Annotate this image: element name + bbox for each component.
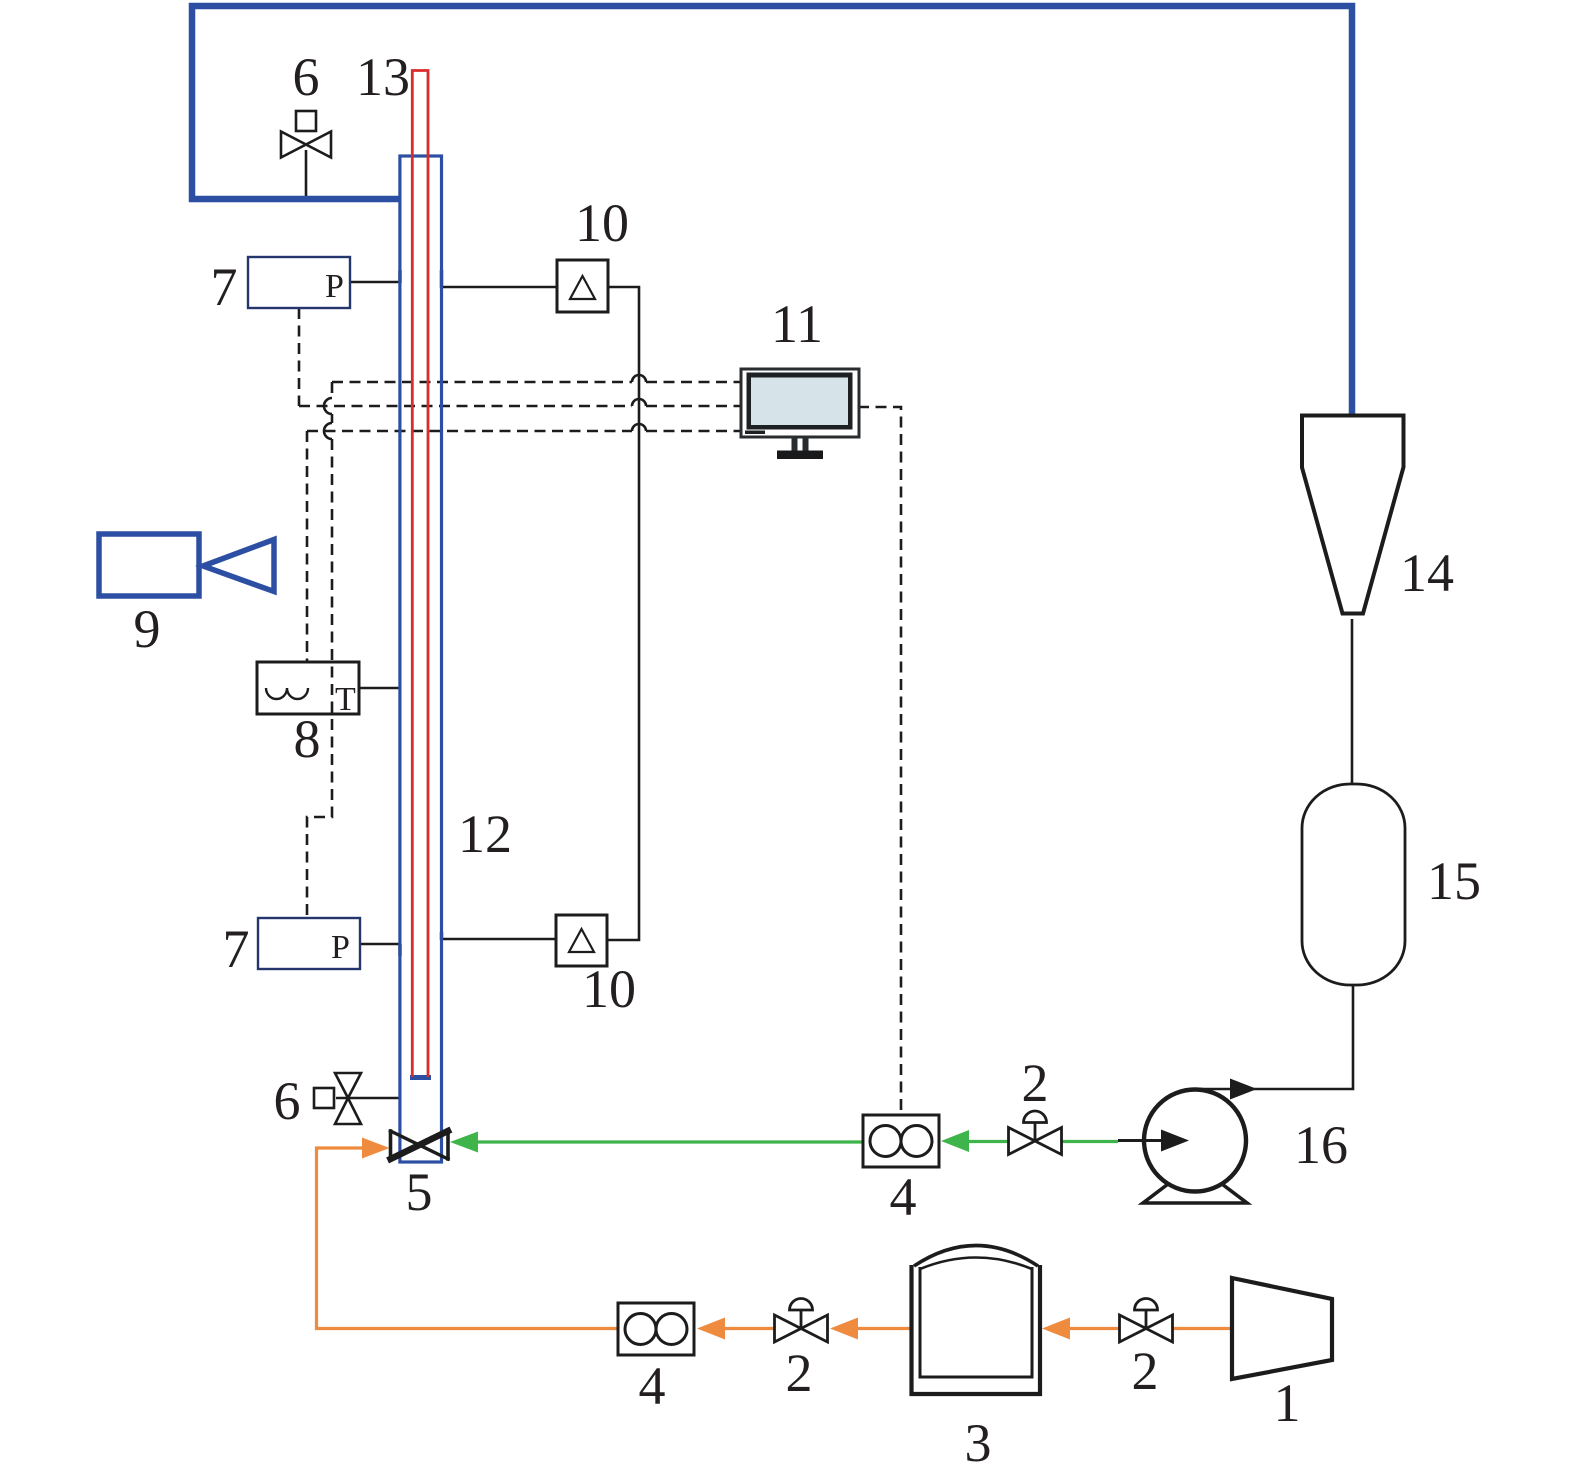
svg-text:7: 7	[211, 257, 238, 317]
svg-text:10: 10	[575, 193, 629, 253]
svg-text:2: 2	[1132, 1341, 1159, 1401]
svg-text:16: 16	[1294, 1115, 1348, 1175]
svg-text:14: 14	[1400, 543, 1454, 603]
svg-text:4: 4	[890, 1167, 917, 1227]
svg-text:P: P	[331, 929, 350, 966]
svg-text:1: 1	[1274, 1373, 1301, 1433]
svg-text:9: 9	[134, 599, 161, 659]
svg-text:P: P	[325, 268, 344, 305]
svg-text:2: 2	[786, 1343, 813, 1403]
svg-text:13: 13	[356, 47, 410, 107]
svg-text:6: 6	[274, 1071, 301, 1131]
svg-text:12: 12	[458, 804, 512, 864]
svg-text:7: 7	[223, 919, 250, 979]
svg-text:T: T	[335, 681, 356, 718]
svg-text:6: 6	[293, 47, 320, 107]
svg-text:3: 3	[965, 1413, 992, 1473]
svg-text:11: 11	[771, 294, 823, 354]
svg-text:15: 15	[1427, 851, 1481, 911]
svg-text:5: 5	[406, 1162, 433, 1222]
svg-text:10: 10	[582, 959, 636, 1019]
svg-text:8: 8	[294, 709, 321, 769]
svg-text:4: 4	[639, 1356, 666, 1416]
svg-text:2: 2	[1022, 1053, 1049, 1113]
